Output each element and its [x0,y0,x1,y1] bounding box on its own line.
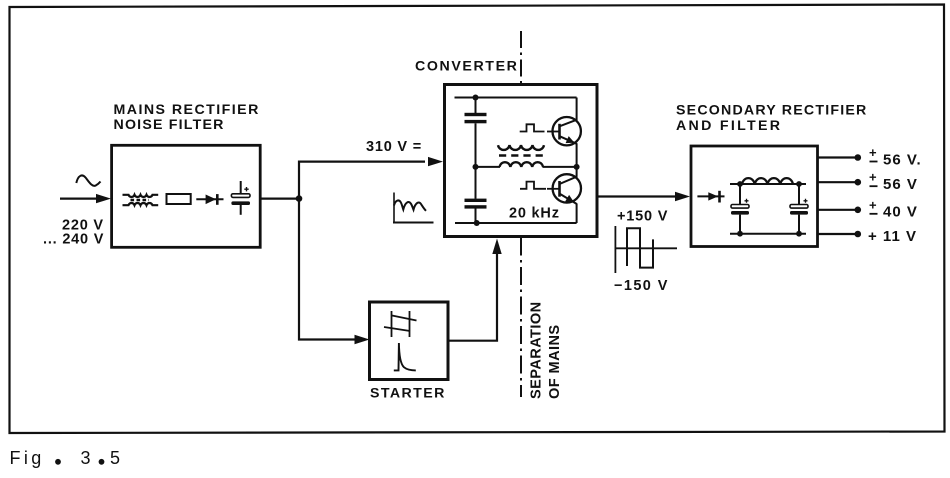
mains input arrow wire [60,194,111,203]
caption Fig. 3.5 [10,448,121,468]
output line 40V [818,197,918,220]
svg-text:20 kHz: 20 kHz [509,206,560,222]
drive pulse icon (upper) [520,124,545,131]
wire: upper emitter to mid rail [576,144,578,167]
label SEPARATION OF MAINS (rotated) [529,301,564,399]
mains input sine symbol [76,175,100,185]
wire: converter left rail [475,98,477,224]
output line 11V [818,228,917,245]
svg-text:... 240 V: ... 240 V [43,232,104,248]
starter ramp icon [384,311,417,337]
svg-text:310 V =: 310 V = [366,139,422,155]
svg-text:+: + [869,197,877,212]
drive pulse icon (lower) [520,182,546,189]
transformer core [499,154,543,157]
svg-text:56 V: 56 V [883,176,918,193]
label MAINS RECTIFIER / NOISE FILTER [114,102,260,133]
svg-text:−150 V: −150 V [614,278,669,294]
svg-text:+: + [869,145,877,160]
starter pulse icon [394,343,416,370]
diode symbol (secondary) [697,191,724,203]
svg-text:56 V.: 56 V. [883,151,922,168]
square wave icon [615,226,677,273]
svg-text:+ 11 V: + 11 V [868,228,917,245]
svg-text:SECONDARY RECTIFIER: SECONDARY RECTIFIER [676,103,868,119]
node: top rail junction [473,95,479,101]
transformer primary winding [498,145,544,150]
filter inductor [742,178,793,184]
svg-text:SEPARATION: SEPARATION [529,301,545,399]
junction node [296,195,303,202]
transistor upper [547,117,581,145]
arrowhead into converter [428,157,443,166]
output line 56V (1) [818,145,922,168]
svg-text:AND FILTER: AND FILTER [676,118,782,134]
block: secondary rectifier box [691,146,818,247]
output line 56V (2) [818,170,918,193]
svg-text:3: 3 [81,448,91,468]
wire: upper collector to top rail [576,98,578,121]
svg-text:STARTER: STARTER [370,386,446,402]
arrowhead up into converter [492,239,501,255]
arrowhead into starter [355,335,370,344]
node dots secondary top [737,181,743,187]
capacitor symbol (mains, polarized) [231,181,250,215]
wire: converter output arrow [598,195,677,197]
noise-filter choke symbol [123,195,159,205]
svg-text:NOISE FILTER: NOISE FILTER [114,117,225,133]
svg-text:+150 V: +150 V [617,209,668,225]
diode symbol (mains) [196,194,223,205]
transformer secondary winding [500,162,544,167]
svg-text:+: + [869,170,877,185]
svg-text:5: 5 [110,448,120,468]
capacitor upper (converter) [465,113,487,124]
svg-text:MAINS RECTIFIER: MAINS RECTIFIER [114,102,260,118]
wire: junction up to 310V feed [299,162,425,199]
wire: converter top rail [455,97,577,99]
node: bottom rail junction [474,220,480,226]
block: converter box [445,85,598,237]
svg-text:OF MAINS: OF MAINS [547,324,563,399]
fuse rectangle symbol [167,194,191,204]
wire: secondary bottom rail [730,233,806,235]
wire: mains block to junction [260,198,299,200]
svg-text:CONVERTER: CONVERTER [415,59,518,75]
node dots secondary bottom [737,231,743,237]
wire: lower emitter to bottom rail [576,204,578,223]
transistor lower [547,174,581,204]
wire: lower collector to mid rail [576,167,578,177]
node: mid rail junction left [473,164,479,170]
node: mid rail junction right [574,164,580,170]
svg-text:Fig: Fig [10,448,45,468]
block: starter box [370,302,449,380]
block: mains rectifier noise filter box [112,145,261,247]
inductor-current waveform icon [393,193,434,223]
capacitor right (secondary) [790,184,808,234]
separation line (below converter) [520,238,522,398]
capacitor lower (converter) [465,199,487,209]
label SECONDARY RECTIFIER / AND FILTER [676,103,868,135]
svg-text:40 V: 40 V [883,204,918,221]
wire: starter output to converter [448,253,497,341]
capacitor left (secondary) [731,184,749,234]
wire: converter mid rail [476,166,577,168]
wire: junction down to starter [299,199,356,340]
wire: converter bottom rail [455,222,577,224]
wire: secondary top rail [730,183,806,185]
separation line (above converter) [520,31,522,83]
